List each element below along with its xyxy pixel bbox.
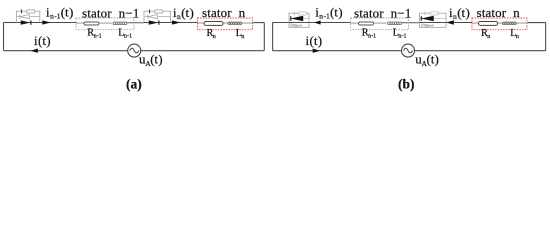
svg-text:n: n	[213, 34, 216, 40]
wire bottom (b): left of source	[273, 50, 402, 52]
switch tick on M1 top edge (a)	[21, 10, 23, 14]
upper diode branch wire in M4 (b)	[420, 18, 447, 20]
label L_n (b)	[510, 28, 519, 40]
diode D4a (b) black, points left	[421, 16, 433, 21]
svg-text:-1: -1	[371, 33, 376, 39]
wire top (a): through stator n box	[198, 22, 265, 25]
label i(t) (b)	[306, 33, 323, 48]
svg-text:): )	[435, 51, 439, 66]
svg-text:n: n	[516, 34, 519, 40]
svg-text:): )	[46, 33, 50, 48]
label R_n-1 (a)	[87, 28, 101, 40]
wire bottom (a): left of source	[4, 50, 128, 52]
AC source uA (b)	[402, 44, 415, 57]
wire through M3 (b)	[289, 22, 309, 24]
label i_n-1(t) (a)	[46, 4, 73, 20]
svg-text:n: n	[241, 34, 244, 40]
wire through M1 bottom edge (a)	[16, 22, 39, 24]
svg-text:-1: -1	[402, 33, 407, 39]
module M4 outline (b)	[420, 13, 447, 27]
resistor R_n-1 (a)	[84, 22, 99, 25]
AC source uA (a)	[128, 44, 141, 57]
svg-text:): )	[466, 5, 470, 20]
wire top (b): inside stator n-1 box	[351, 22, 387, 24]
label L_n (a)	[236, 28, 245, 40]
switch box on M2 top edge (a)	[155, 10, 163, 13]
label R_n-1 (b)	[362, 28, 376, 40]
wire top (b): stator n-1 box to block M4	[401, 22, 420, 24]
wire top (a): left corner to block M1	[4, 22, 17, 24]
svg-text:): )	[69, 4, 73, 19]
switch box on M4 top edge (b) gray	[430, 12, 438, 15]
diode D3b (b) gray, points right, below wire	[291, 24, 303, 28]
wire through M2 bottom edge (a)	[144, 22, 171, 24]
resistor R_n (b)	[479, 22, 498, 26]
wire top (b): left corner to block M3	[273, 22, 289, 24]
current arrow i(t) (a) pointing left on bottom wire	[31, 49, 38, 53]
svg-text:n: n	[487, 34, 490, 40]
stator n-1 dashed box (b) gray	[351, 18, 409, 30]
svg-text:-1: -1	[127, 33, 132, 39]
stator n dashed box (b) red	[472, 18, 527, 30]
module M3 outline (b)	[289, 13, 309, 27]
module M2 outline (a)	[144, 11, 171, 22]
label stator n-1 (a)	[82, 5, 139, 20]
wire left rail (b)	[272, 23, 274, 51]
label L_n-1 (b)	[393, 28, 407, 40]
wire top (a): stator n-1 box to block M2	[127, 22, 145, 24]
inductor L_n-1 (b) coil	[388, 22, 402, 25]
wire through M4 (b)	[420, 22, 447, 24]
label uA(t) (a)	[139, 51, 163, 68]
diode D1a (a) gray, points left	[20, 15, 30, 19]
svg-text:): )	[190, 5, 194, 20]
diode D4b (b) gray, points right, below wire	[422, 24, 435, 28]
wire left rail (a)	[3, 23, 5, 51]
resistor R_n (a)	[204, 22, 223, 26]
wire bottom (b): right of source	[414, 50, 545, 52]
label stator n (b)	[477, 5, 521, 20]
wire top (a): block M1 to stator n-1 box	[40, 22, 76, 24]
diode D1b (a) black, points right, on wire	[21, 20, 31, 24]
svg-text:): )	[338, 4, 342, 19]
label stator n (a)	[202, 5, 246, 20]
svg-text:): )	[318, 33, 322, 48]
inductor L_n (a) coil	[228, 22, 242, 25]
switch tick on M2 top edge (a)	[149, 10, 151, 14]
caption (b)	[398, 77, 415, 92]
label L_n-1 (a)	[118, 28, 132, 40]
resistor R_n-1 (b)	[359, 22, 374, 25]
label uA(t) (b)	[415, 51, 439, 68]
inductor L_n-1 (a) coil	[113, 22, 127, 25]
wire right rail (a)	[263, 23, 265, 51]
current arrow i_n-1(t) (b) pointing left	[314, 20, 321, 24]
current arrow i_n(t) (b) pointing left	[446, 20, 454, 24]
label i_n(t) (a)	[173, 5, 194, 21]
module M1 outline (a)	[16, 11, 39, 22]
current arrow i_n(t) (a) pointing right	[172, 20, 181, 24]
diode D2a (a) gray, points left	[148, 15, 158, 19]
svg-text:(b): (b)	[398, 77, 415, 92]
caption (a)	[126, 77, 142, 92]
upper diode branch wire in M3 (b)	[289, 18, 309, 20]
wire bottom (a): right of source	[141, 50, 265, 52]
diode branch wire in M1 (a)	[16, 16, 39, 18]
switch box on M3 top edge (b) gray	[299, 12, 307, 15]
diode branch wire in M2 (a)	[144, 16, 171, 18]
wire top (a): inside stator n-1 box between R and L	[76, 22, 112, 24]
diode D2b (a) black, points right, on wire	[149, 20, 159, 24]
svg-text:(a): (a)	[126, 77, 142, 92]
wire top (b): block M4 to stator n box	[446, 22, 472, 24]
label R_n (a)	[207, 28, 216, 40]
label i_n-1(t) (b)	[315, 4, 342, 20]
wire top (b): block M3 to stator n-1 box	[309, 22, 351, 24]
wire top (a): block M2 to stator n box	[171, 22, 198, 24]
stator n dashed box (a) red	[198, 18, 253, 30]
current arrow i_n-1(t) (a) pointing right	[42, 20, 51, 24]
switch box on M1 top edge (a)	[27, 10, 35, 13]
inductor L_n (b) coil	[503, 22, 517, 25]
label R_n (b)	[481, 28, 490, 40]
label i_n(t) (b)	[449, 5, 470, 21]
switch tick on M3 top edge (b) gray	[294, 12, 296, 16]
wire right rail (b)	[545, 23, 547, 51]
switch tick on M4 top edge (b) gray	[424, 12, 426, 16]
current arrow i(t) (b) pointing right on bottom wire	[313, 49, 320, 53]
label i(t) (a)	[34, 33, 51, 48]
svg-text:-1: -1	[97, 33, 102, 39]
stator n-1 dashed box (a) gray	[76, 18, 134, 30]
label stator n-1 (b)	[354, 5, 411, 20]
diode D3a (b) black, points left	[291, 16, 303, 21]
svg-text:): )	[158, 51, 162, 66]
wire top (b): through stator n box to right rail	[472, 22, 546, 25]
